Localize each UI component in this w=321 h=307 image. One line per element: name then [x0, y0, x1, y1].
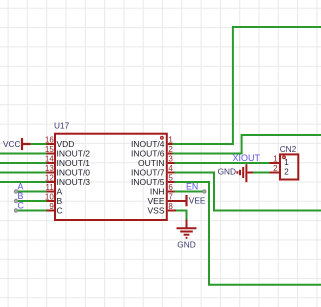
supply symbol VEE [185, 195, 187, 206]
svg-text:C: C [57, 205, 63, 215]
ground symbol GND rotated [237, 164, 246, 182]
svg-text:9: 9 [49, 202, 54, 211]
U17 right pin numbers [168, 136, 173, 212]
CN2 pin stubs [270, 163, 281, 173]
svg-text:INOUT/7: INOUT/7 [131, 167, 165, 177]
svg-text:INOUT/1: INOUT/1 [57, 158, 91, 168]
svg-text:2: 2 [284, 168, 289, 177]
svg-text:GND: GND [177, 240, 195, 250]
U17 left pin numbers [45, 136, 54, 212]
wire CN2 pin2 to ground [252, 172, 270, 174]
svg-text:2: 2 [273, 164, 278, 173]
svg-text:OUTIN: OUTIN [138, 158, 164, 168]
wire pin3 OUTIN net XIOUT [175, 162, 270, 164]
svg-text:GND: GND [218, 166, 236, 176]
junction dot net A [14, 190, 18, 194]
svg-text:B: B [18, 191, 24, 201]
svg-text:INOUT/2: INOUT/2 [57, 148, 91, 158]
svg-text:XIOUT: XIOUT [233, 153, 261, 163]
svg-text:VEE: VEE [189, 196, 206, 206]
svg-text:10: 10 [45, 193, 54, 202]
svg-text:A: A [57, 186, 63, 196]
supply symbol VCC [22, 138, 31, 150]
wire pin5 INOUT/5 down and right [175, 182, 321, 285]
wire net B [16, 200, 47, 202]
svg-text:VEE: VEE [147, 196, 164, 206]
svg-text:1: 1 [273, 155, 278, 164]
svg-text:15: 15 [45, 145, 54, 154]
U17 right pin names [131, 139, 165, 216]
wire pin8 VSS to ground [176, 211, 187, 221]
svg-text:1: 1 [284, 158, 289, 167]
svg-text:C: C [18, 200, 25, 210]
wire net VCC to pin16 [30, 143, 47, 145]
wire net A [16, 191, 47, 193]
svg-text:INOUT/4: INOUT/4 [131, 139, 165, 149]
svg-text:EN: EN [186, 181, 198, 191]
ground lead [186, 220, 188, 228]
left pin stubs of U17 [47, 144, 55, 211]
svg-text:INOUT/5: INOUT/5 [131, 177, 165, 187]
wire pin2 INOUT/6 up and right [173, 135, 321, 154]
U17 pin1 marker ring [161, 137, 164, 140]
svg-text:VSS: VSS [147, 205, 164, 215]
wire pin14 INOUT/1 [0, 162, 47, 164]
svg-text:14: 14 [45, 155, 54, 164]
junction dot net B [14, 199, 18, 203]
U17 left pin names [57, 139, 91, 216]
svg-text:VCC: VCC [3, 139, 21, 149]
wire pin6 INH net EN [175, 191, 205, 193]
connector CN2 body [280, 154, 298, 179]
svg-text:INOUT/6: INOUT/6 [131, 148, 165, 158]
ground symbol GND [177, 228, 197, 238]
svg-text:VDD: VDD [57, 139, 75, 149]
CN2 pin names inside [284, 158, 289, 177]
svg-text:16: 16 [45, 136, 54, 145]
wire pin12 INOUT/3 [0, 181, 47, 183]
svg-text:INOUT/0: INOUT/0 [57, 167, 91, 177]
wire pin13 INOUT/0 [0, 172, 47, 174]
wire pin1 INOUT/4 up and right [173, 27, 321, 144]
wire pin4 INOUT/7 down and right [175, 173, 321, 211]
wire pin15 INOUT/2 [0, 153, 47, 155]
svg-text:CN2: CN2 [280, 144, 297, 154]
wire net C [16, 210, 47, 212]
svg-text:12: 12 [45, 174, 54, 183]
CN2 pin1 marker ring [283, 156, 286, 159]
junction dot net C [14, 209, 18, 213]
svg-text:13: 13 [45, 164, 54, 173]
right pin stubs of U17 [168, 144, 187, 211]
op IC U17 body [55, 134, 167, 220]
svg-text:INOUT/3: INOUT/3 [57, 177, 91, 187]
svg-text:B: B [57, 196, 63, 206]
junction dot net EN [203, 190, 207, 194]
CN2 pin numbers outside [273, 155, 278, 174]
svg-text:A: A [18, 181, 24, 191]
svg-text:INH: INH [150, 186, 165, 196]
ground lead CN2 [248, 172, 254, 174]
svg-text:11: 11 [45, 183, 54, 192]
svg-text:U17: U17 [54, 121, 70, 131]
